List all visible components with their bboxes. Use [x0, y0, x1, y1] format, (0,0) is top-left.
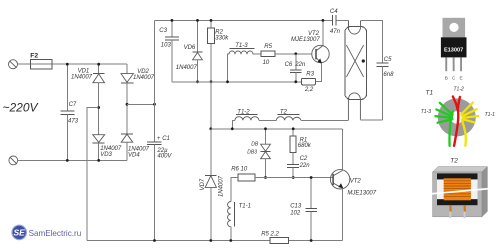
logo SamElectric.ru [11, 225, 81, 241]
svg-text:R6 10: R6 10 [231, 167, 248, 173]
svg-text:T2: T2 [280, 110, 288, 116]
node T1-1 bottom [229, 239, 232, 242]
svg-text:R5 2.2: R5 2.2 [261, 232, 279, 238]
inductor T1-1 [228, 202, 251, 241]
node VD3 bottom [97, 159, 100, 162]
node R2 top [210, 19, 213, 22]
transistor VT2 upper MJE13007 [291, 20, 329, 63]
svg-text:MJE13007: MJE13007 [347, 191, 376, 197]
node diac top [264, 127, 267, 130]
node C7 bottom [66, 159, 69, 162]
svg-text:DB3: DB3 [247, 150, 257, 156]
svg-text:10: 10 [263, 60, 270, 66]
svg-text:22n: 22n [294, 62, 306, 68]
svg-text:T1-3: T1-3 [235, 43, 248, 49]
resistor R2 330k [208, 20, 230, 81]
node diac bottom [264, 176, 267, 179]
capacitor C1 22u 400V [147, 136, 172, 240]
node R2 bottom [210, 80, 213, 83]
wire DC plus link [127, 103, 155, 105]
wire R2 drop to mid [210, 82, 212, 129]
svg-text:C1: C1 [162, 136, 170, 142]
wire bottom rail [87, 240, 343, 242]
svg-text:C: C [452, 76, 456, 81]
svg-text:DB: DB [251, 142, 259, 148]
wire resonant bus [211, 128, 343, 130]
node VD6 bottom [196, 80, 199, 83]
svg-text:47n: 47n [330, 29, 341, 35]
input terminal bottom [9, 156, 18, 165]
inductor T1-3 [228, 43, 261, 82]
node C13 bottom [310, 239, 313, 242]
svg-text:E: E [460, 76, 463, 81]
svg-text:C13: C13 [290, 204, 302, 210]
node C6 bottom [294, 80, 297, 83]
svg-text:F2: F2 [30, 53, 38, 60]
lamp tube EL [345, 20, 367, 120]
svg-text:1N4007: 1N4007 [133, 75, 155, 81]
diac DB3 [247, 129, 270, 178]
svg-text:C5: C5 [384, 57, 392, 63]
svg-text:MJE13007: MJE13007 [291, 37, 320, 43]
svg-text:330k: 330k [215, 35, 229, 41]
wire mid bus [172, 81, 302, 83]
svg-text:103: 103 [161, 42, 172, 48]
svg-text:2,2: 2,2 [304, 87, 314, 93]
node bridge mid A [97, 106, 100, 109]
svg-text:E13007: E13007 [444, 47, 463, 53]
svg-text:VT2: VT2 [350, 179, 362, 185]
diode VD2 1N4007 [121, 69, 155, 134]
svg-text:C4: C4 [330, 9, 338, 15]
diode VD7 1N4007 [200, 129, 225, 241]
top rail oscillator [155, 19, 349, 21]
node VD1 top [97, 63, 100, 66]
node DC plus [153, 103, 156, 106]
capacitor C2 22n [287, 156, 310, 177]
inductor T2 [276, 110, 348, 121]
svg-text:C3: C3 [159, 28, 167, 34]
wire bridge leg A [98, 64, 100, 73]
wire lamp bottom right [360, 119, 382, 121]
svg-text:T1-2: T1-2 [454, 87, 465, 93]
svg-text:R3: R3 [306, 72, 314, 78]
wire mains top [18, 63, 128, 65]
svg-text:VD6: VD6 [184, 45, 196, 51]
node R1 top [292, 127, 295, 130]
TO-220 package E13007 [441, 18, 467, 81]
diode VD4 1N4007 [121, 134, 149, 161]
svg-text:B: B [445, 76, 448, 81]
resistor R6 10 [231, 167, 333, 202]
resistor R5 2.2 [261, 232, 288, 244]
svg-text:C2: C2 [300, 156, 308, 162]
resistor R1 680k [290, 129, 312, 165]
node C2 bottom [292, 176, 295, 179]
node T1-2 tap [231, 127, 234, 130]
toroid T1 photo [421, 87, 495, 146]
svg-text:VD4: VD4 [128, 153, 140, 159]
capacitor C7 [60, 64, 78, 160]
fuse F2 [30, 53, 52, 69]
node bridge mid B [126, 103, 129, 106]
node C7 top [66, 63, 69, 66]
svg-text:R5: R5 [264, 44, 272, 50]
capacitor C4 47n [330, 9, 341, 35]
svg-text:1N4007: 1N4007 [176, 65, 198, 71]
wire C4 to lamp [347, 20, 349, 30]
svg-text:6n8: 6n8 [383, 72, 394, 78]
input terminal top [9, 60, 18, 69]
inductor T1-2 [232, 110, 276, 129]
resistor R5 10 [261, 44, 312, 66]
node C13 top [310, 176, 313, 179]
diode VD3 1N4007 [93, 135, 122, 161]
svg-text:SamElectric.ru: SamElectric.ru [29, 229, 82, 238]
capacitor C5 6n8 [376, 57, 394, 120]
node collector top [322, 19, 325, 22]
svg-text:+: + [157, 136, 161, 142]
resistor R3 2,2 [301, 63, 321, 92]
svg-text:VD3: VD3 [100, 152, 112, 158]
svg-text:400V: 400V [157, 154, 172, 160]
node mid wire left [209, 127, 212, 130]
wire mains bottom [18, 159, 127, 161]
wire lamp top right to C5 [361, 21, 383, 64]
svg-text:VD7: VD7 [200, 178, 206, 190]
transformer T2 photo [431, 158, 490, 218]
svg-text:T2: T2 [450, 158, 458, 165]
transistor VT2 lower MJE13007 [330, 129, 376, 241]
wire bridge leg B [126, 64, 128, 73]
svg-text:473: 473 [68, 119, 79, 125]
capacitor C13 102 [290, 178, 317, 241]
node base VT2 top [294, 52, 297, 55]
svg-text:102: 102 [290, 211, 301, 217]
node C3 top [171, 19, 174, 22]
svg-text:1N4007: 1N4007 [71, 74, 93, 80]
svg-text:C7: C7 [69, 102, 77, 108]
svg-text:SE: SE [14, 228, 26, 238]
node VD6 top [196, 19, 199, 22]
node rail C1 [153, 239, 156, 242]
svg-text:~220V: ~220V [3, 101, 39, 115]
svg-text:C6: C6 [285, 62, 293, 68]
capacitor C3 103 [159, 20, 179, 81]
wire DC minus drop [87, 108, 99, 241]
svg-text:T1-2: T1-2 [237, 110, 250, 116]
node VD7 bottom [209, 239, 212, 242]
svg-text:680k: 680k [298, 143, 312, 149]
svg-text:T1-3: T1-3 [421, 109, 432, 115]
svg-text:T1-1: T1-1 [485, 112, 496, 118]
svg-text:22n: 22n [299, 163, 311, 169]
svg-text:T1: T1 [426, 89, 434, 96]
diode VD6 1N4007 [176, 20, 203, 81]
capacitor C6 22n [285, 54, 306, 82]
svg-text:T1-1: T1-1 [239, 203, 251, 209]
node T1-3 [226, 80, 229, 83]
svg-text:1N4007: 1N4007 [219, 175, 225, 197]
diode VD1 1N4007 [71, 68, 105, 134]
wire DC plus vertical [154, 20, 156, 141]
